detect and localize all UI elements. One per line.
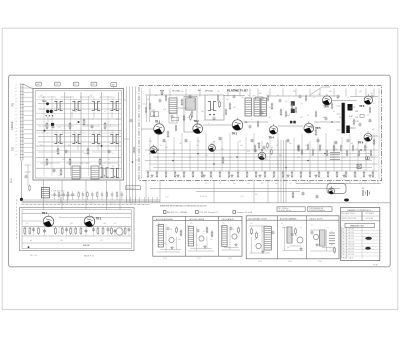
- connector J4: [91, 82, 97, 86]
- svg-text:AC 132: AC 132: [349, 253, 355, 256]
- resistor R20: [147, 172, 149, 176]
- resistor R63: [229, 104, 231, 108]
- svg-text:r24: r24: [155, 95, 157, 97]
- svg-text:4,7k: 4,7k: [163, 109, 166, 111]
- svg-text:450: 450: [247, 183, 250, 185]
- svg-text:8p2: 8p2: [295, 235, 298, 237]
- battery BT1 9V: [362, 188, 370, 196]
- capacitor C1: [52, 125, 55, 127]
- svg-text:AF 125: AF 125: [349, 231, 355, 234]
- resistor R139: [358, 151, 360, 155]
- highlight ge1: [365, 237, 372, 240]
- capacitor C81: [171, 115, 174, 117]
- shield box: [205, 95, 224, 120]
- resistor R40: [327, 172, 329, 176]
- svg-text:250: 250: [317, 183, 320, 185]
- resistor R114: [353, 120, 355, 124]
- svg-text:HF1.BA1: HF1.BA1: [172, 90, 181, 93]
- capacitor C80: [159, 99, 162, 101]
- svg-text:470: 470: [181, 91, 184, 93]
- capacitor C121: [130, 119, 133, 121]
- svg-text:39: 39: [373, 103, 375, 105]
- svg-text:BA3 HF3 VOL. CADRAN: BA3 HF3 VOL. CADRAN: [167, 211, 188, 214]
- svg-text:82: 82: [15, 154, 17, 156]
- svg-text:PLATINE FI .B7: PLATINE FI .B7: [227, 88, 248, 92]
- svg-text:68p: 68p: [173, 153, 176, 155]
- svg-text:r52: r52: [367, 115, 369, 117]
- svg-text:c9: c9: [301, 103, 303, 105]
- svg-text:c44: c44: [359, 91, 362, 93]
- checkbox HF: [196, 211, 219, 214]
- coil L8: [41, 188, 49, 198]
- ground: [316, 243, 318, 245]
- resistor R102: [165, 96, 167, 100]
- capacitor C87: [279, 99, 282, 101]
- svg-text:6k8: 6k8: [80, 163, 83, 165]
- resistor R67: [315, 130, 317, 134]
- coil L15: [320, 230, 326, 246]
- transformer T5: [54, 132, 62, 144]
- svg-text:R 36: R 36: [110, 203, 113, 205]
- svg-text:s2: s2: [108, 163, 110, 165]
- resistor R140: [29, 186, 31, 190]
- capacitor C124: [254, 149, 257, 151]
- resistor R117: [295, 229, 297, 233]
- svg-text:ACCORD ANT. GO-PO: ACCORD ANT. GO-PO: [249, 217, 268, 220]
- resistor R141: [370, 151, 372, 155]
- svg-text:r31: r31: [285, 100, 288, 103]
- svg-text:470: 470: [90, 95, 93, 97]
- svg-text:T5: T5: [56, 132, 58, 134]
- svg-text:100: 100: [228, 247, 231, 249]
- resistor R103: [175, 126, 177, 130]
- junction: [157, 121, 362, 168]
- resistor R1: [46, 124, 48, 129]
- capacitor C105: [311, 231, 314, 233]
- resistor R35: [282, 172, 284, 176]
- transformer T2: [72, 99, 80, 111]
- svg-text:56k: 56k: [40, 145, 43, 147]
- svg-text:4,7k: 4,7k: [163, 243, 166, 245]
- resistor R100: [145, 108, 147, 112]
- filter FL1: [342, 103, 345, 134]
- svg-text:TR 2: TR 2: [96, 218, 102, 221]
- connector J5: [111, 83, 117, 87]
- transformer T9b: [100, 165, 108, 177]
- svg-text:2n2: 2n2: [100, 135, 103, 137]
- capacitor C125: [290, 121, 296, 124]
- capacitor C82: [189, 95, 192, 97]
- transistor Q10: [169, 237, 174, 242]
- resistor R140: [364, 146, 366, 150]
- filter FL2: [348, 104, 353, 111]
- svg-text:C 47 R 36 T 2 S 1: C 47 R 36 T 2 S 1: [51, 191, 65, 193]
- coil L13: [264, 226, 271, 250]
- resistor R107: [257, 122, 259, 126]
- panel group alignement: [153, 216, 242, 256]
- svg-text:c1: c1: [42, 97, 44, 99]
- svg-text:c15: c15: [15, 151, 18, 153]
- resistor R66: [291, 104, 293, 108]
- svg-text:0,1: 0,1: [269, 107, 271, 109]
- svg-text:15n: 15n: [332, 249, 335, 251]
- svg-text:10: 10: [300, 178, 302, 180]
- svg-text:P 308: P 308: [163, 258, 167, 260]
- svg-text:C 60: C 60: [240, 196, 243, 198]
- svg-text:c1: c1: [15, 85, 17, 87]
- coil L12: [222, 226, 227, 247]
- svg-text:56k: 56k: [259, 93, 262, 95]
- resistor R65: [280, 110, 282, 114]
- resistor R141: [133, 148, 135, 152]
- svg-text:a2: a2: [104, 111, 106, 113]
- capacitor C92: [337, 95, 340, 97]
- transistor TR3: [232, 118, 243, 136]
- svg-text:REF. 1203: REF. 1203: [30, 255, 38, 257]
- junction: [101, 145, 103, 147]
- svg-text:r70: r70: [100, 239, 103, 242]
- header box tableau: [308, 207, 333, 212]
- svg-text:r8: r8: [80, 131, 82, 134]
- labels: [163, 183, 376, 263]
- ground: [171, 246, 173, 248]
- transistor TR9: [358, 131, 372, 144]
- capacitor C16: [335, 141, 338, 143]
- svg-text:56k: 56k: [254, 239, 257, 241]
- svg-text:1n: 1n: [15, 95, 17, 97]
- svg-text:F M: F M: [349, 116, 353, 118]
- svg-text:590: 590: [275, 183, 278, 185]
- capacitor C90: [325, 117, 328, 119]
- ground: [300, 247, 302, 249]
- wire: [156, 225, 181, 253]
- svg-text:d1: d1: [160, 145, 162, 147]
- resistor R112: [206, 228, 208, 232]
- svg-text:8p2: 8p2: [287, 115, 290, 117]
- svg-text:T4: T4: [112, 99, 114, 101]
- resistor R11: [219, 102, 221, 107]
- svg-text:15: 15: [15, 141, 17, 143]
- transistor TR1: [42, 212, 54, 227]
- svg-text:47k: 47k: [339, 117, 342, 119]
- svg-text:AC 128: AC 128: [349, 247, 355, 250]
- resistor R113: [331, 104, 333, 108]
- svg-text:m1: m1: [248, 95, 250, 97]
- wire: [143, 96, 155, 122]
- resistor R114: [238, 228, 240, 232]
- svg-text:810: 810: [359, 183, 362, 185]
- ground: [151, 174, 153, 176]
- capacitor C103: [272, 231, 275, 233]
- svg-text:c4: c4: [15, 98, 17, 100]
- coil L10: [158, 225, 163, 248]
- frame platine HF: [33, 89, 124, 180]
- svg-text:c31: c31: [58, 127, 61, 129]
- transistor TR3: [116, 228, 123, 235]
- svg-text:d3: d3: [68, 145, 70, 147]
- svg-text:110: 110: [289, 183, 292, 185]
- capacitor C104: [291, 233, 294, 235]
- resistor R95: [70, 228, 72, 233]
- svg-text:47k: 47k: [50, 119, 53, 121]
- svg-text:c44: c44: [62, 159, 65, 161]
- svg-text:56k: 56k: [335, 149, 338, 151]
- svg-text:r4: r4: [15, 144, 16, 146]
- svg-text:P 802: P 802: [288, 261, 292, 263]
- transistor TR11: [150, 145, 157, 154]
- svg-text:AF 125: AF 125: [349, 234, 355, 237]
- svg-text:c43: c43: [276, 145, 279, 147]
- resistor R93: [55, 228, 57, 233]
- connector J1 (AM): [36, 82, 42, 86]
- ground: [235, 243, 237, 245]
- transistor Q15: [313, 234, 318, 239]
- svg-text:r50: r50: [370, 154, 373, 157]
- svg-text:s2: s2: [92, 119, 94, 121]
- transistor Q13: [256, 243, 261, 248]
- resistor R90: [24, 228, 26, 233]
- resistor R109: [285, 112, 287, 116]
- svg-text:r33: r33: [300, 116, 303, 119]
- svg-text:22p: 22p: [210, 239, 213, 241]
- wire: [22, 213, 131, 243]
- resistor R108: [267, 96, 269, 100]
- svg-text:C 52 470: C 52 470: [58, 203, 65, 205]
- resistor R138: [352, 146, 354, 150]
- resistor R64: [271, 104, 273, 108]
- transformer T1: [54, 99, 62, 111]
- svg-text:871: 871: [253, 95, 256, 97]
- svg-text:T1: T1: [56, 99, 58, 101]
- capacitor C17: [369, 119, 372, 121]
- svg-text:a2: a2: [203, 231, 205, 233]
- shield box 3: [184, 97, 197, 133]
- resistor R101: [124, 228, 126, 233]
- svg-text:c31: c31: [222, 223, 225, 225]
- resistor R111: [180, 231, 182, 235]
- ground: [343, 174, 345, 176]
- coil L11: [188, 227, 193, 247]
- resistor R136: [340, 146, 342, 150]
- antenna symbol: [160, 91, 164, 96]
- svg-text:470: 470: [265, 159, 268, 161]
- resistor R37: [300, 172, 302, 176]
- svg-text:11: 11: [320, 178, 322, 180]
- junction: [132, 161, 134, 163]
- svg-text:070: 070: [261, 183, 264, 185]
- svg-text:AC 128: AC 128: [349, 244, 355, 247]
- resistor R61: [181, 100, 183, 104]
- labels: [147, 91, 375, 161]
- wire: [141, 101, 378, 137]
- transformer T4: [110, 99, 118, 111]
- coil L16: [329, 231, 335, 247]
- capacitor C62: [65, 228, 68, 230]
- resistor R45: [372, 172, 374, 176]
- svg-text:ACCORD CADRE: ACCORD CADRE: [190, 218, 205, 221]
- labels: [157, 223, 335, 251]
- svg-text:P 701: P 701: [197, 258, 201, 260]
- svg-text:TR 1: TR 1: [42, 212, 48, 215]
- svg-text:c12: c12: [147, 99, 150, 101]
- resistor R151: [267, 144, 269, 148]
- transistor Q12: [232, 234, 237, 239]
- panel group reglages: [246, 216, 339, 259]
- svg-text:TR10: TR10: [342, 257, 346, 259]
- resistor R116: [373, 140, 375, 144]
- resistor R32: [255, 172, 257, 176]
- svg-text:c66: c66: [103, 223, 106, 225]
- transistor Q14: [297, 237, 303, 243]
- transformer T3: [92, 99, 100, 111]
- resistor R26: [201, 172, 203, 176]
- transformer T6: [72, 132, 80, 144]
- svg-text:P 808: P 808: [258, 261, 262, 263]
- resistor R100: [111, 228, 113, 233]
- resistor R36: [291, 172, 293, 176]
- transistor Q5: [329, 186, 335, 194]
- svg-text:330: 330: [365, 147, 368, 149]
- transistor TR5: [304, 121, 321, 133]
- svg-text:c7: c7: [80, 97, 82, 99]
- resistor R111: [305, 96, 307, 100]
- svg-text:PAGE F 45: PAGE F 45: [84, 254, 95, 257]
- capacitor C91: [347, 139, 350, 141]
- ground: [203, 174, 205, 176]
- capacitor C122: [366, 157, 370, 160]
- capacitor C120: [25, 175, 28, 177]
- svg-text:p1: p1: [333, 111, 335, 113]
- resistor R60: [149, 104, 151, 108]
- svg-text:120: 120: [116, 119, 119, 121]
- svg-text:1k5: 1k5: [279, 155, 282, 157]
- svg-text:790: 790: [205, 183, 208, 185]
- ground: [262, 250, 264, 252]
- svg-text:C 58: C 58: [165, 197, 168, 199]
- svg-text:68: 68: [15, 121, 17, 123]
- transistor TR10: [42, 101, 54, 126]
- svg-text:22p: 22p: [201, 111, 204, 113]
- resistor R115: [251, 229, 253, 233]
- ground: [287, 174, 289, 176]
- capacitor C10: [163, 139, 166, 141]
- svg-text:t3: t3: [86, 162, 87, 165]
- svg-text:ACCORD ANTENNE: ACCORD ANTENNE: [156, 218, 174, 221]
- resistor R137: [346, 151, 348, 155]
- value box: [151, 112, 159, 117]
- resistor R29: [228, 172, 230, 176]
- resistor R5: [104, 124, 106, 129]
- legend text: [51, 191, 76, 197]
- junction: [209, 114, 211, 116]
- resistor R134: [319, 146, 321, 150]
- capacitor C86: [261, 111, 264, 113]
- svg-text:CADRE: CADRE: [11, 121, 14, 130]
- svg-text:d3: d3: [281, 223, 283, 225]
- wire: [145, 150, 378, 171]
- labels: [58, 194, 258, 205]
- svg-text:R42: R42: [255, 194, 258, 196]
- svg-text:c47: c47: [355, 149, 358, 151]
- capacitor C61: [43, 230, 46, 232]
- resistor R33: [264, 172, 266, 176]
- header box BF: [277, 207, 305, 212]
- capacitor C2: [65, 150, 68, 152]
- svg-text:PO: PO: [12, 103, 15, 107]
- svg-text:r17: r17: [307, 115, 309, 117]
- svg-text:a2: a2: [187, 117, 189, 119]
- svg-text:2n2: 2n2: [319, 145, 322, 147]
- wire: [44, 140, 379, 209]
- svg-text:c62: c62: [58, 217, 61, 219]
- svg-text:b2: b2: [15, 91, 17, 93]
- resistor R68: [333, 146, 335, 150]
- svg-text:Gammes GO et BE: Gammes GO et BE: [237, 211, 253, 214]
- resistor R7: [99, 160, 101, 165]
- svg-text:330: 330: [293, 91, 296, 93]
- svg-text:10n: 10n: [257, 143, 260, 145]
- transformer T11: [291, 101, 295, 105]
- svg-text:1k5: 1k5: [112, 97, 115, 99]
- wire: [310, 230, 336, 252]
- resistor R39: [318, 172, 320, 176]
- svg-text:c31: c31: [317, 94, 320, 96]
- svg-text:d3: d3: [277, 95, 279, 97]
- svg-text:T6: T6: [74, 132, 76, 134]
- svg-text:r40: r40: [372, 128, 375, 131]
- svg-text:1n: 1n: [58, 175, 60, 177]
- svg-text:T2: T2: [74, 99, 76, 101]
- capacitor C14: [287, 139, 290, 141]
- svg-text:2n2: 2n2: [250, 223, 253, 225]
- transistor TR1: [154, 120, 165, 134]
- svg-text:s1: s1: [15, 118, 17, 120]
- svg-text:TR10: TR10: [42, 101, 47, 103]
- svg-text:AF 126: AF 126: [349, 228, 355, 231]
- svg-text:0,1: 0,1: [343, 157, 345, 159]
- svg-text:C 54: C 54: [90, 203, 93, 205]
- transformer T10: [208, 101, 216, 110]
- svg-text:560: 560: [197, 141, 200, 143]
- wire: [38, 97, 118, 163]
- svg-text:1k5: 1k5: [196, 245, 199, 247]
- svg-text:c69: c69: [60, 240, 63, 242]
- coil L5: [245, 98, 252, 116]
- capacitor C93: [359, 123, 362, 125]
- svg-text:c4: c4: [60, 97, 62, 99]
- table transistors: [341, 223, 382, 259]
- resistor R24: [183, 172, 185, 176]
- transistor TR7: [209, 143, 216, 152]
- svg-text:27k: 27k: [221, 149, 224, 151]
- capacitor C66: [114, 230, 117, 232]
- resistor R92: [38, 228, 40, 233]
- svg-text:630: 630: [303, 183, 306, 185]
- capacitor C63: [85, 230, 88, 232]
- coil L17: [330, 153, 340, 160]
- switch S1: [357, 164, 361, 168]
- svg-text:330: 330: [98, 145, 101, 147]
- resistor R116: [256, 233, 258, 237]
- svg-text:2k: 2k: [15, 148, 17, 150]
- svg-text:p2: p2: [15, 131, 17, 133]
- wire: [61, 197, 157, 203]
- svg-text:100: 100: [233, 107, 236, 109]
- resistor R104: [183, 116, 185, 120]
- svg-text:10n: 10n: [171, 121, 174, 123]
- resistor R152: [271, 150, 273, 154]
- resistor R3: [69, 124, 71, 129]
